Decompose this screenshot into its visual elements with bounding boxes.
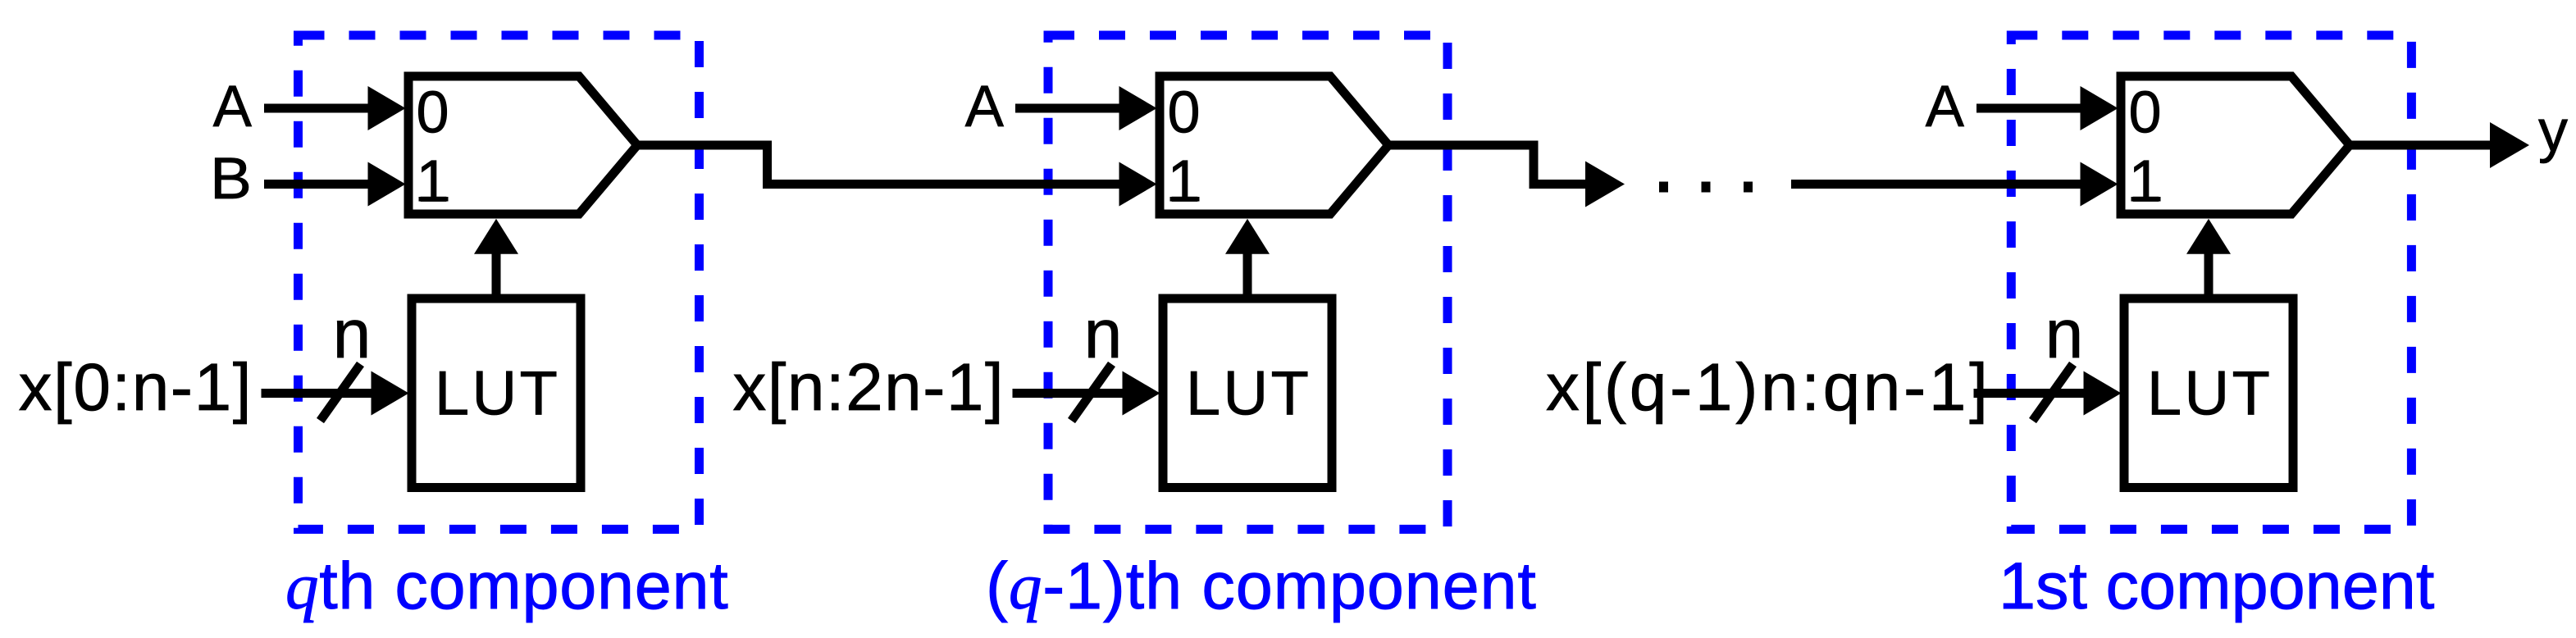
svg-text:n: n	[2045, 295, 2084, 372]
svg-text:LUT: LUT	[1186, 359, 1311, 429]
svg-text:LUT: LUT	[2147, 359, 2273, 429]
svg-text:A: A	[213, 75, 253, 139]
svg-text:x[0:n-1]: x[0:n-1]	[19, 350, 253, 425]
svg-text:A: A	[1926, 75, 1965, 139]
svg-text:B: B	[210, 147, 252, 212]
svg-text:1st component: 1st component	[1999, 549, 2434, 623]
svg-text:1: 1	[417, 149, 449, 215]
svg-text:1: 1	[1168, 149, 1201, 215]
svg-text:0: 0	[2129, 80, 2162, 146]
svg-text:(q-1)th component: (q-1)th component	[986, 549, 1537, 623]
svg-text:0: 0	[417, 80, 449, 146]
svg-text:0: 0	[1168, 80, 1201, 146]
svg-text:x[n:2n-1]: x[n:2n-1]	[732, 350, 1005, 425]
svg-text:LUT: LUT	[435, 359, 560, 429]
svg-text:y: y	[2538, 98, 2568, 164]
svg-text:qth component: qth component	[285, 549, 728, 623]
svg-text:x[(q-1)n:qn-1]: x[(q-1)n:qn-1]	[1546, 350, 1991, 425]
svg-text:n: n	[333, 295, 372, 372]
svg-text:n: n	[1084, 295, 1123, 372]
svg-text:A: A	[965, 75, 1005, 139]
svg-text:1: 1	[2129, 149, 2162, 215]
